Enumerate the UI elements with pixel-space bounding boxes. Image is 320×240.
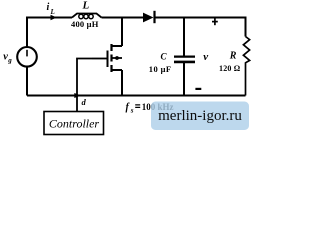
wire inductor to diode [102, 17, 144, 19]
svg-text:s: s [130, 107, 134, 115]
svg-text:merlin-igor.ru: merlin-igor.ru [158, 108, 242, 124]
resistor R [243, 37, 249, 96]
label fs = 100 kHz [126, 102, 174, 115]
svg-text:i: i [47, 2, 50, 13]
capacitor C plates [174, 57, 195, 62]
arrow iL on top rail [51, 15, 57, 21]
controller box [44, 112, 104, 135]
svg-text:d: d [82, 97, 87, 107]
wire gate to controller [77, 59, 92, 112]
svg-text:f: f [126, 102, 131, 113]
wire left rail lower [26, 66, 28, 95]
arrow on gate wire at rail [74, 93, 81, 98]
capacitor C branch wire upper [183, 19, 185, 56]
wire diode to right corner and down [156, 18, 246, 37]
capacitor C branch wire lower [183, 63, 185, 96]
svg-text:R: R [229, 50, 237, 61]
inductor L [72, 14, 102, 19]
svg-text:120 Ω: 120 Ω [219, 64, 241, 73]
voltage source Vg [17, 47, 37, 67]
diode D1 [143, 11, 155, 23]
svg-text:v: v [203, 51, 208, 63]
MOSFET Q1 [92, 19, 122, 96]
label minus [195, 88, 201, 90]
svg-text:C: C [161, 51, 168, 61]
watermark box [151, 102, 249, 131]
svg-text:10 μF: 10 μF [149, 64, 172, 74]
svg-text:g: g [7, 57, 12, 65]
bottom rail [27, 95, 246, 97]
label plus [212, 18, 218, 25]
wire top-left rail [27, 18, 72, 48]
svg-text:Controller: Controller [49, 117, 100, 131]
svg-text:400 μH: 400 μH [71, 19, 99, 29]
svg-text:L: L [82, 0, 90, 12]
svg-text:L: L [50, 8, 55, 16]
